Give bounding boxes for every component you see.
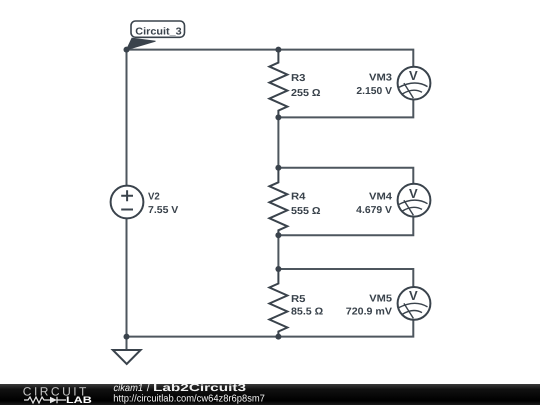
footer logo LAB <box>66 395 92 405</box>
wire bottom bus and loop3 right lower <box>127 319 414 336</box>
svg-text:720.9 mV: 720.9 mV <box>346 306 393 317</box>
svg-text:VM5: VM5 <box>369 293 392 304</box>
voltmeter VM3 V letter <box>409 68 418 83</box>
label R4 value <box>291 192 321 218</box>
svg-text:/: / <box>147 383 150 394</box>
voltmeter VM3 <box>398 67 431 100</box>
label VM5 value <box>346 293 393 317</box>
label V2 value <box>148 192 179 217</box>
node ground junction <box>124 334 130 340</box>
svg-text:V: V <box>409 288 418 303</box>
wire top bus and loop1 right upper <box>127 50 414 68</box>
footer url text <box>113 394 265 405</box>
wire loop2 bottom and right lower <box>278 216 413 235</box>
node bottom of R3 <box>275 114 281 120</box>
resistor R3 <box>269 50 287 118</box>
node at top-left corner <box>124 47 130 53</box>
svg-text:VM4: VM4 <box>369 192 392 203</box>
svg-text:Circuit_3: Circuit_3 <box>135 27 182 38</box>
wire loop2 top and right upper <box>278 168 413 184</box>
node top of R3 <box>275 47 281 53</box>
voltmeter VM5 V letter <box>409 288 418 303</box>
voltmeter VM4 <box>398 184 431 217</box>
label R3 value <box>291 73 321 99</box>
svg-text:255 Ω: 255 Ω <box>291 88 321 99</box>
svg-text:85.5 Ω: 85.5 Ω <box>291 306 323 317</box>
svg-text:555 Ω: 555 Ω <box>291 206 321 217</box>
resistor R5 <box>269 269 287 337</box>
footer logo CIRCUIT <box>23 385 87 399</box>
svg-text:R5: R5 <box>291 294 306 305</box>
resistor R4 <box>269 168 287 235</box>
node bottom of R4 <box>275 232 281 238</box>
wire ground stub <box>126 337 128 350</box>
wire loop3 top and right upper <box>278 269 413 287</box>
svg-text:http://circuitlab.com/cw64z8r6: http://circuitlab.com/cw64z8r6p8sm7 <box>113 394 265 405</box>
wire loop1 bottom and right lower <box>278 99 413 117</box>
ground <box>113 350 141 364</box>
svg-text:7.55 V: 7.55 V <box>148 205 179 216</box>
svg-text:VM3: VM3 <box>369 73 392 84</box>
label VM3 value <box>356 73 392 98</box>
wire middle bus segment between R3 and R4 <box>277 117 279 167</box>
svg-text:R3: R3 <box>291 73 306 84</box>
wire left bus upper <box>126 50 128 186</box>
voltmeter VM4 V letter <box>409 186 418 201</box>
svg-text:4.679 V: 4.679 V <box>356 205 392 216</box>
node top of R5 <box>275 266 281 272</box>
footer title text <box>114 382 247 394</box>
wire left bus lower <box>126 218 128 337</box>
footer bar <box>0 384 540 405</box>
label VM4 value <box>356 192 392 217</box>
voltmeter VM5 <box>398 287 431 320</box>
wire middle bus segment between R4 and R5 <box>277 235 279 269</box>
svg-text:V2: V2 <box>148 192 160 203</box>
label R5 value <box>291 294 323 318</box>
net label Circuit_3 <box>127 21 185 50</box>
node bottom of R5 <box>275 334 281 340</box>
footer logo resistor-diode glyph <box>24 397 66 403</box>
node top of R4 <box>275 165 281 171</box>
voltage source V2 <box>111 186 144 219</box>
svg-text:cikam1: cikam1 <box>114 383 144 394</box>
svg-text:LAB: LAB <box>66 395 92 405</box>
svg-text:V: V <box>409 186 418 201</box>
svg-text:Lab2Circuit3: Lab2Circuit3 <box>153 382 246 394</box>
svg-text:V: V <box>409 68 418 83</box>
svg-text:R4: R4 <box>291 192 306 203</box>
svg-text:2.150 V: 2.150 V <box>356 86 392 97</box>
